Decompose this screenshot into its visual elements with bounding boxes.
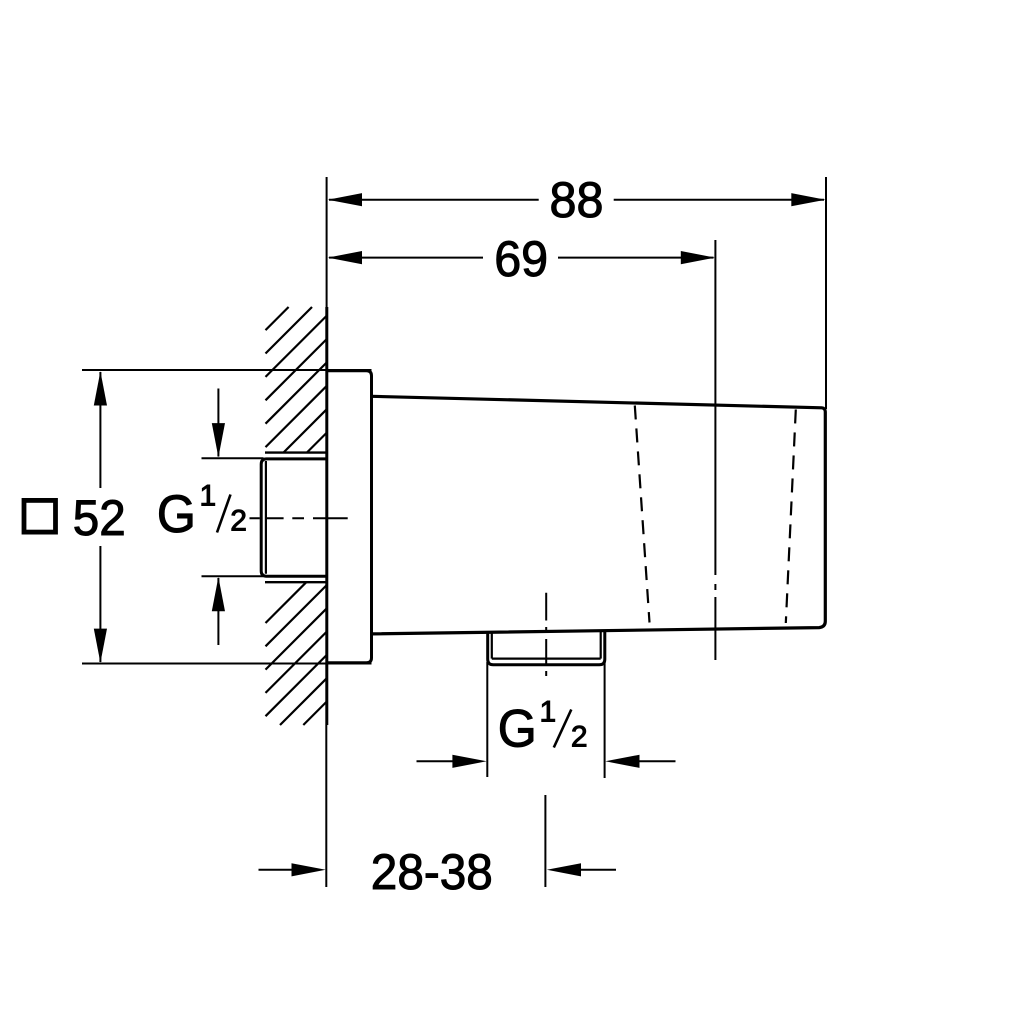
svg-text:G: G bbox=[498, 700, 537, 759]
svg-text:2: 2 bbox=[571, 721, 588, 754]
dimension line 52 bbox=[99, 372, 101, 662]
wall hatching lower band bbox=[266, 582, 327, 725]
extension line outlet left bbox=[486, 662, 488, 777]
centre line of outlet bbox=[545, 593, 547, 676]
28-38 dim tail left bbox=[259, 869, 294, 871]
wall hatching upper band bbox=[266, 307, 327, 453]
svg-text:88: 88 bbox=[550, 172, 604, 228]
arrowhead 52 down bbox=[94, 629, 107, 663]
thread OD extension line lower bbox=[202, 575, 264, 577]
centre line of inlet bbox=[250, 517, 348, 519]
svg-text:2: 2 bbox=[230, 505, 247, 538]
arrowhead outlet left bbox=[452, 755, 486, 768]
wall hole edge below inlet thread bbox=[265, 581, 327, 583]
arrowhead thread OD up bbox=[212, 577, 225, 611]
arrowhead 69 left bbox=[328, 251, 362, 264]
label G 1/2 (outlet) bbox=[498, 696, 588, 759]
extension line 52 top bbox=[82, 369, 372, 371]
svg-text:1: 1 bbox=[200, 480, 217, 513]
extension line 28-38 right bbox=[544, 795, 546, 887]
arrowhead 69 right bbox=[681, 251, 715, 264]
svg-text:69: 69 bbox=[494, 231, 548, 287]
outlet dim tail left bbox=[417, 760, 454, 762]
hidden contour line left (dashed) bbox=[635, 406, 650, 623]
arrowhead 52 up bbox=[94, 371, 107, 405]
extension line outlet right bbox=[604, 662, 606, 778]
square section symbol bbox=[24, 500, 56, 532]
outlet nipple root line left bbox=[491, 632, 493, 659]
hidden contour line right (dashed) bbox=[786, 410, 796, 624]
dimension line 69 bbox=[329, 257, 714, 259]
outlet nipple root line bottom bbox=[492, 657, 601, 659]
arrowhead outlet right bbox=[605, 755, 639, 768]
arrowhead 28-38 left bbox=[292, 863, 326, 876]
thread OD dim line upper bbox=[217, 389, 219, 457]
body (tapered holder cup) bbox=[372, 396, 826, 634]
wall plate (escutcheon) bbox=[327, 371, 372, 663]
thread OD dim line lower bbox=[217, 578, 219, 645]
wall surface line bbox=[325, 307, 328, 725]
inlet thread outline (G 1/2 male, side view) bbox=[261, 459, 327, 576]
label G 1/2 (inlet) bbox=[157, 480, 247, 544]
svg-text:28-38: 28-38 bbox=[371, 844, 493, 900]
outlet nipple root line right bbox=[600, 631, 602, 659]
svg-text:52: 52 bbox=[73, 490, 126, 546]
extension line right for 88 dim bbox=[825, 177, 827, 409]
arrowhead 28-38 right bbox=[547, 863, 581, 876]
outlet nipple outline (G 1/2 male, bottom) bbox=[488, 631, 605, 665]
extension line left (wall plane, above wall) bbox=[326, 177, 328, 307]
extension line left (wall plane, below wall to 28-38 dim) bbox=[325, 725, 327, 887]
inlet thread root line bbox=[265, 461, 267, 574]
arrowhead thread OD down bbox=[212, 423, 225, 457]
svg-text:1: 1 bbox=[540, 696, 557, 729]
arrowhead 88 right bbox=[791, 193, 825, 206]
wall hole edge above inlet thread bbox=[265, 451, 327, 453]
thread OD extension line upper bbox=[202, 457, 264, 459]
extension/centre line for 69 dim bbox=[714, 240, 716, 660]
outlet dim tail right bbox=[639, 760, 676, 762]
svg-text:G: G bbox=[157, 485, 196, 544]
arrowhead 88 left bbox=[328, 193, 362, 206]
28-38 dim tail right bbox=[579, 869, 616, 871]
extension line 52 bottom bbox=[82, 663, 372, 665]
dimension line 88 bbox=[329, 199, 824, 201]
